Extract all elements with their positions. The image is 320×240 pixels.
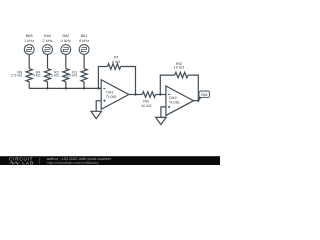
- svg-text:1 kHz: 1 kHz: [24, 38, 34, 43]
- source Bit8: [24, 45, 34, 55]
- svg-text:10 kΩ: 10 kΩ: [141, 103, 152, 108]
- resistor R2: [63, 69, 69, 82]
- source Bit4: [43, 45, 53, 55]
- svg-text:TL081: TL081: [169, 100, 180, 105]
- junction Rin-Rf2: [159, 93, 161, 95]
- resistor Rf: [108, 64, 121, 70]
- wire OA2 output: [194, 100, 199, 102]
- junction OA1 output Rf: [134, 93, 136, 95]
- resistor Rf2: [175, 72, 188, 78]
- wire Bit1 to R1: [83, 54, 85, 68]
- source Bit1: [79, 45, 89, 55]
- node Out flag: [198, 96, 201, 101]
- wire Rin to OA2: [156, 94, 166, 96]
- svg-text:2.5 kΩ: 2.5 kΩ: [11, 73, 22, 78]
- footer band: [0, 156, 220, 165]
- svg-text:10 kΩ: 10 kΩ: [49, 73, 59, 78]
- wire R8 to bus: [28, 82, 30, 89]
- wire Bit4 to R4: [47, 54, 49, 68]
- wire feedback Rf right: [121, 67, 136, 95]
- wire OA1 plus to ground: [96, 101, 101, 112]
- pin minus OA2: [168, 94, 170, 96]
- svg-text:4 kHz: 4 kHz: [61, 38, 71, 43]
- svg-text:LAB: LAB: [22, 161, 34, 165]
- wire feedback Rf2 right: [188, 75, 198, 101]
- wire feedback Rf left: [98, 67, 107, 89]
- wire R4 to bus: [47, 82, 49, 89]
- wire OA2 plus to ground: [161, 107, 166, 118]
- wire Bit8 to R8: [28, 54, 30, 68]
- junction OA2 output: [197, 100, 199, 102]
- op-amp OA2: [166, 86, 194, 116]
- resistor R8: [26, 69, 32, 82]
- wire OA1 output: [129, 94, 143, 96]
- ground G1: [91, 111, 102, 118]
- logo divider: [39, 158, 41, 164]
- svg-text:20 kΩ: 20 kΩ: [67, 73, 77, 78]
- junction bus-Rf: [97, 87, 99, 89]
- wire R1 to bus: [83, 82, 85, 89]
- svg-text:http://circuitlab.com/c/88dcky: http://circuitlab.com/c/88dcky: [47, 160, 100, 165]
- ground G2: [156, 117, 167, 124]
- wire R2 to bus: [65, 82, 67, 89]
- resistor Rin: [142, 92, 155, 98]
- op-amp OA1: [101, 80, 129, 110]
- pin plus OA2: [168, 106, 170, 108]
- svg-text:TL081: TL081: [106, 94, 117, 99]
- svg-text:4 kΩ: 4 kΩ: [112, 59, 120, 64]
- wire feedback Rf2 left: [160, 75, 175, 94]
- resistor R1: [81, 69, 87, 82]
- source Bit2: [61, 45, 71, 55]
- pin minus OA1: [103, 87, 105, 89]
- resistor R4: [44, 69, 50, 82]
- wire summing bus: [29, 87, 101, 89]
- junction bus-R4: [46, 87, 48, 89]
- svg-text:8 kHz: 8 kHz: [79, 38, 89, 43]
- svg-text:2 kHz: 2 kHz: [42, 38, 52, 43]
- junction bus-R1: [83, 87, 85, 89]
- wire Bit2 to R2: [65, 54, 67, 68]
- svg-text:10 kΩ: 10 kΩ: [174, 65, 185, 70]
- svg-text:5 kΩ: 5 kΩ: [32, 73, 40, 78]
- junction bus-R2: [65, 87, 67, 89]
- pin plus OA1: [103, 100, 105, 102]
- svg-text:Out: Out: [201, 92, 208, 97]
